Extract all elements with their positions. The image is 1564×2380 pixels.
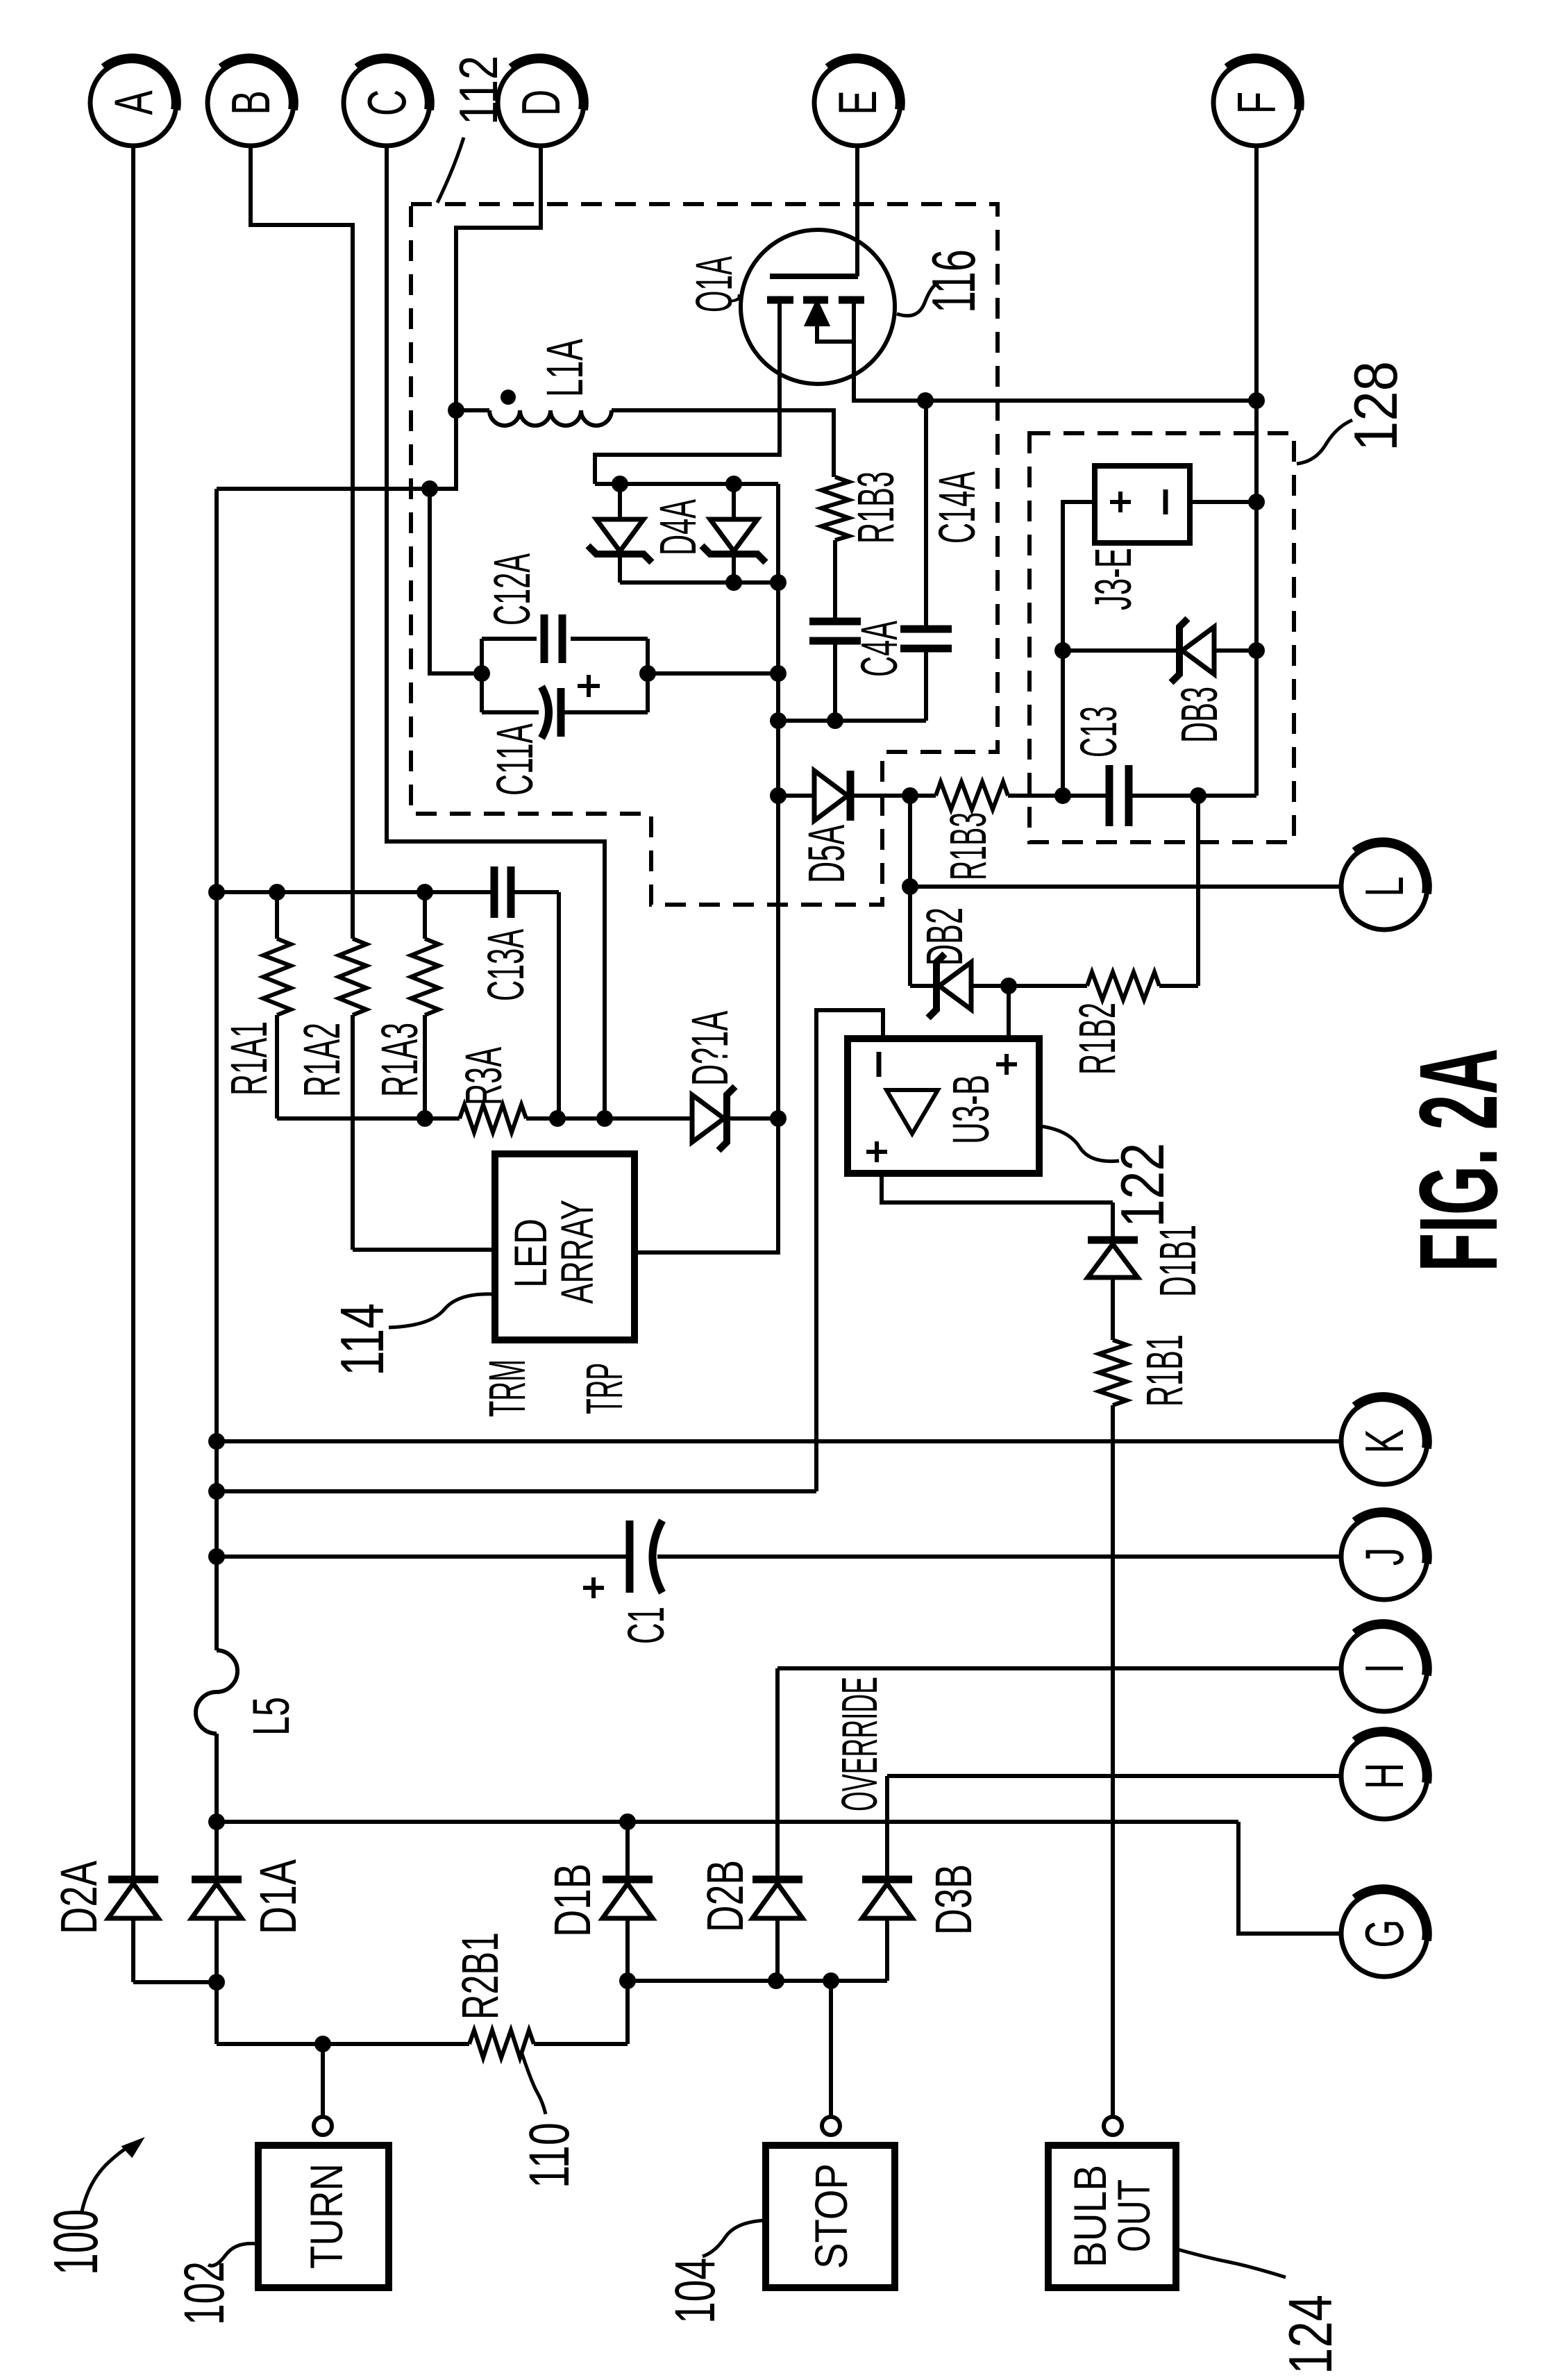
svg-text:116: 116 [919,249,988,313]
svg-text:H: H [1355,1763,1415,1789]
wire L line [910,885,1341,889]
terminal K [1341,1398,1427,1484]
wire C12A branch [430,489,482,673]
resistor R1B3 [821,477,849,540]
wire L1A left link [217,410,456,489]
node D4A bottom [725,574,742,591]
wire D5A node down [908,796,912,986]
diode D3B [885,1776,889,1876]
node C12A tap [421,480,438,497]
svg-text:D: D [512,90,572,116]
resistor R1B3b [936,782,1008,810]
node R1A1 top [269,884,285,900]
capacitor C12A loop [480,639,484,712]
TURN pin [321,2044,325,2117]
wire battery right [1190,500,1256,504]
wire D [456,146,541,410]
node C13A bottom [549,1110,566,1127]
svg-text:A: A [104,90,165,115]
diode D5A [778,794,813,798]
resistor R1B2 [1087,972,1159,1000]
node C12A left [473,665,490,682]
node C4A rail [827,712,843,729]
svg-text:R1A3: R1A3 [371,1023,428,1097]
node battery right [1248,494,1265,510]
wire I line [777,1666,1341,1670]
node D2B bottom [768,1972,784,1989]
svg-text:D1B1: D1B1 [1149,1225,1206,1297]
terminal H [1341,1733,1427,1819]
node rail T left [208,884,225,900]
wire C4A down [833,644,837,721]
svg-text:OUT: OUT [1108,2179,1159,2252]
terminal E [814,60,900,146]
diode D1A [192,1876,242,1884]
svg-text:R1B3: R1B3 [847,471,905,544]
node D1B bottom rail [619,1972,636,1989]
svg-text:TURN: TURN [301,2163,352,2269]
wire R1B3 to C4A [833,540,837,619]
wire G line [217,1820,1238,1824]
svg-text:FIG. 2A: FIG. 2A [1396,1048,1520,1272]
svg-text:124: 124 [1276,2295,1345,2374]
svg-text:R1B1: R1B1 [1136,1334,1193,1407]
svg-text:R1B2: R1B2 [1068,1003,1126,1075]
wire C13 up [1061,651,1065,796]
transistor Q1A [741,230,895,384]
node TURN tap [314,2036,331,2052]
wire H line [887,1774,1341,1778]
capacitor C13A [491,866,498,918]
node D4A right top [725,476,742,492]
svg-text:R1A1: R1A1 [220,1021,278,1096]
node C12A right [639,665,656,682]
capacitor C4A [809,618,861,626]
terminal I [1341,1625,1427,1711]
inductor L1A [489,410,612,426]
capacitor C13 [1106,765,1113,826]
terminal F [1213,60,1300,146]
svg-text:D5A: D5A [798,825,855,883]
diode D1B1 [1111,1202,1115,1237]
terminal D [498,60,584,146]
wire diode bottom rail [628,1979,887,1983]
svg-text:G: G [1355,1919,1415,1947]
wire D4A bottom rail [620,580,778,585]
dashed box 128 [1029,433,1294,842]
wire turn rail [217,2042,469,2046]
arrow 100 [82,2145,136,2211]
diode D2A [108,1876,158,1884]
node minus rail [208,1483,225,1500]
wire minus rail [217,1489,816,1493]
phasing dot L1A [501,389,516,405]
wire C13 right [1132,794,1256,798]
svg-text:I: I [1355,1664,1415,1674]
node R1A3 bottom [417,1110,433,1127]
terminal A [90,60,176,146]
wire turn rail right [534,2042,628,2046]
svg-text:C1: C1 [617,1607,675,1644]
op-amp U3-B [848,1039,1039,1173]
wire rail B mid [526,1116,692,1121]
svg-text:OVERRIDE: OVERRIDE [832,1677,888,1811]
svg-text:100: 100 [42,2209,111,2275]
wire F vertical [1254,401,1259,796]
wire bus x312 [215,489,219,1650]
wire plus input [1007,986,1011,1039]
node D4A left top [612,476,628,492]
svg-text:TRP: TRP [575,1363,633,1414]
LED ARRAY box [495,1154,634,1340]
wire F [1254,146,1259,401]
BULB OUT pin [1104,2117,1122,2135]
svg-text:C4A: C4A [850,621,908,677]
node F rail [1248,392,1265,409]
leader 114 [389,1294,493,1327]
leader 122 [1041,1126,1119,1162]
leader 124 [1178,2249,1286,2277]
node J rail [208,1548,225,1565]
wire L5 down [215,1734,219,1876]
resistor R2B1 [469,2030,534,2058]
svg-text:TRM: TRM [478,1359,536,1417]
dashed box 112 [411,204,998,905]
node DB3 right [1248,642,1265,659]
wire D1B column [625,1918,630,2044]
diode DB2 [910,984,934,988]
svg-text:R1A2: R1A2 [293,1023,351,1097]
battery J3-E [1095,466,1190,543]
wire J rail left [217,1554,626,1559]
capacitor C14A [924,401,928,626]
resistor R1A2 [339,939,367,1015]
diode D?1A [692,1095,724,1142]
svg-text:LED: LED [505,1218,556,1288]
terminal G [1341,1891,1427,1977]
svg-text:102: 102 [173,2261,236,2325]
svg-text:U3-B: U3-B [942,1075,1000,1144]
svg-text:E: E [828,90,889,115]
svg-text:C: C [358,90,418,116]
capacitor C11A [482,710,539,714]
leader 102 [208,2243,258,2265]
terminal B [208,60,294,146]
svg-text:128: 128 [1341,361,1410,451]
svg-text:R3A: R3A [455,1047,512,1105]
resistor R1A1 [275,892,279,939]
wire C [387,146,605,1118]
BULB OUT box [1048,2145,1176,2288]
wire minus input [816,1010,883,1491]
STOP box [766,2145,895,2288]
node D1B top [619,1813,636,1830]
svg-text:114: 114 [328,1303,396,1376]
leader 128 [1297,420,1352,464]
capacitor C1 [626,1520,634,1593]
svg-text:D3B: D3B [925,1864,982,1935]
diode DB3 [1063,648,1177,653]
wire main vertical [776,484,780,1118]
svg-text:D4A: D4A [649,499,707,555]
svg-text:J3-E: J3-E [1084,548,1142,610]
node C bottom [596,1110,613,1127]
node main C4A rail [770,712,787,729]
svg-text:112: 112 [448,56,509,125]
wire battery left [1063,502,1095,651]
svg-text:F: F [1227,92,1288,114]
wire E [855,146,859,274]
wire bulb vertical [1111,1405,1115,2117]
terminal L [1341,844,1427,930]
svg-text:110: 110 [518,2122,581,2188]
svg-text:D1B: D1B [544,1863,601,1937]
diode D4A right [732,484,736,519]
svg-text:D2A: D2A [50,1861,108,1934]
svg-text:B: B [221,90,282,115]
node G line left [208,1813,225,1830]
diode D2B [775,1668,780,1876]
svg-text:DB2: DB2 [916,907,973,966]
wire L1A to coil [456,408,489,412]
wire G jog [1238,1822,1341,1934]
wire opamp output [882,1173,1113,1202]
node main railB [770,1110,787,1127]
diode D4A left [618,484,622,519]
svg-text:STOP: STOP [805,2163,857,2269]
resistor R1A3 [423,892,427,939]
diode D1B [603,1876,653,1884]
svg-text:C12A: C12A [483,553,541,626]
svg-text:C11A: C11A [486,723,544,796]
svg-text:Q1A: Q1A [685,256,743,312]
wire C13A right [557,892,561,1118]
node L1A left [448,402,464,419]
svg-text:D2B: D2B [696,1860,754,1932]
wire DB3 node down [1196,796,1200,986]
wire R1B3b leads [910,794,936,798]
svg-text:D1A: D1A [249,1859,307,1934]
leader 104 [703,2220,766,2256]
node K rail [208,1433,225,1450]
node main bottom D4A [770,574,787,591]
node battery left low [1054,642,1071,659]
leader 116 [897,283,939,316]
wire main vertical lower [634,1118,778,1252]
node C13 left [1054,787,1071,804]
svg-text:J: J [1355,1548,1415,1566]
inductor L5 [196,1650,237,1734]
wire L1A right [612,410,834,477]
svg-text:DB3: DB3 [1170,687,1228,743]
node C13 right [1190,787,1206,804]
node STOP tap [823,1972,839,1989]
wire A vertical [131,146,135,1876]
wire D4A top rail [595,482,778,486]
svg-text:L5: L5 [242,1697,300,1736]
STOP pin [822,2117,840,2135]
node D2A join [208,1974,225,1991]
svg-text:D?1A: D?1A [681,1011,739,1086]
node L tap [902,878,918,895]
wire K rail [217,1439,1341,1443]
resistor R3A [460,1105,526,1132]
leader 112 [437,137,464,203]
terminal C [344,60,430,146]
node R1A3 top [417,884,433,900]
svg-text:C13: C13 [1070,706,1127,757]
svg-text:K: K [1355,1429,1415,1453]
svg-text:C13A: C13A [477,929,535,1001]
svg-text:122: 122 [1108,1143,1177,1227]
TURN box [258,2145,389,2288]
wire rail B [277,1116,460,1121]
leader 110 [522,2054,546,2114]
svg-text:R1B3: R1B3 [939,812,997,880]
wire B [251,146,353,939]
node source rail C14A [917,392,934,409]
wire STOP drop [829,1981,833,2117]
wire C4A rail [778,719,926,723]
wire J rail right [657,1554,1341,1559]
svg-text:C14A: C14A [928,471,986,544]
svg-text:104: 104 [664,2258,727,2324]
svg-text:R2B1: R2B1 [451,1932,509,2020]
resistor R1B1 [1099,1340,1127,1405]
node opamp plus [1000,978,1017,994]
svg-text:L: L [1355,876,1415,896]
svg-text:L1A: L1A [536,339,594,397]
terminal J [1341,1514,1427,1600]
node D5A right [902,787,918,804]
node main C12A [770,665,787,682]
wire EF rail [925,399,1256,403]
wire rail T [217,890,494,894]
wire C12A to main [648,671,778,676]
node main D5A [770,787,787,804]
svg-text:ARRAY: ARRAY [551,1200,603,1304]
